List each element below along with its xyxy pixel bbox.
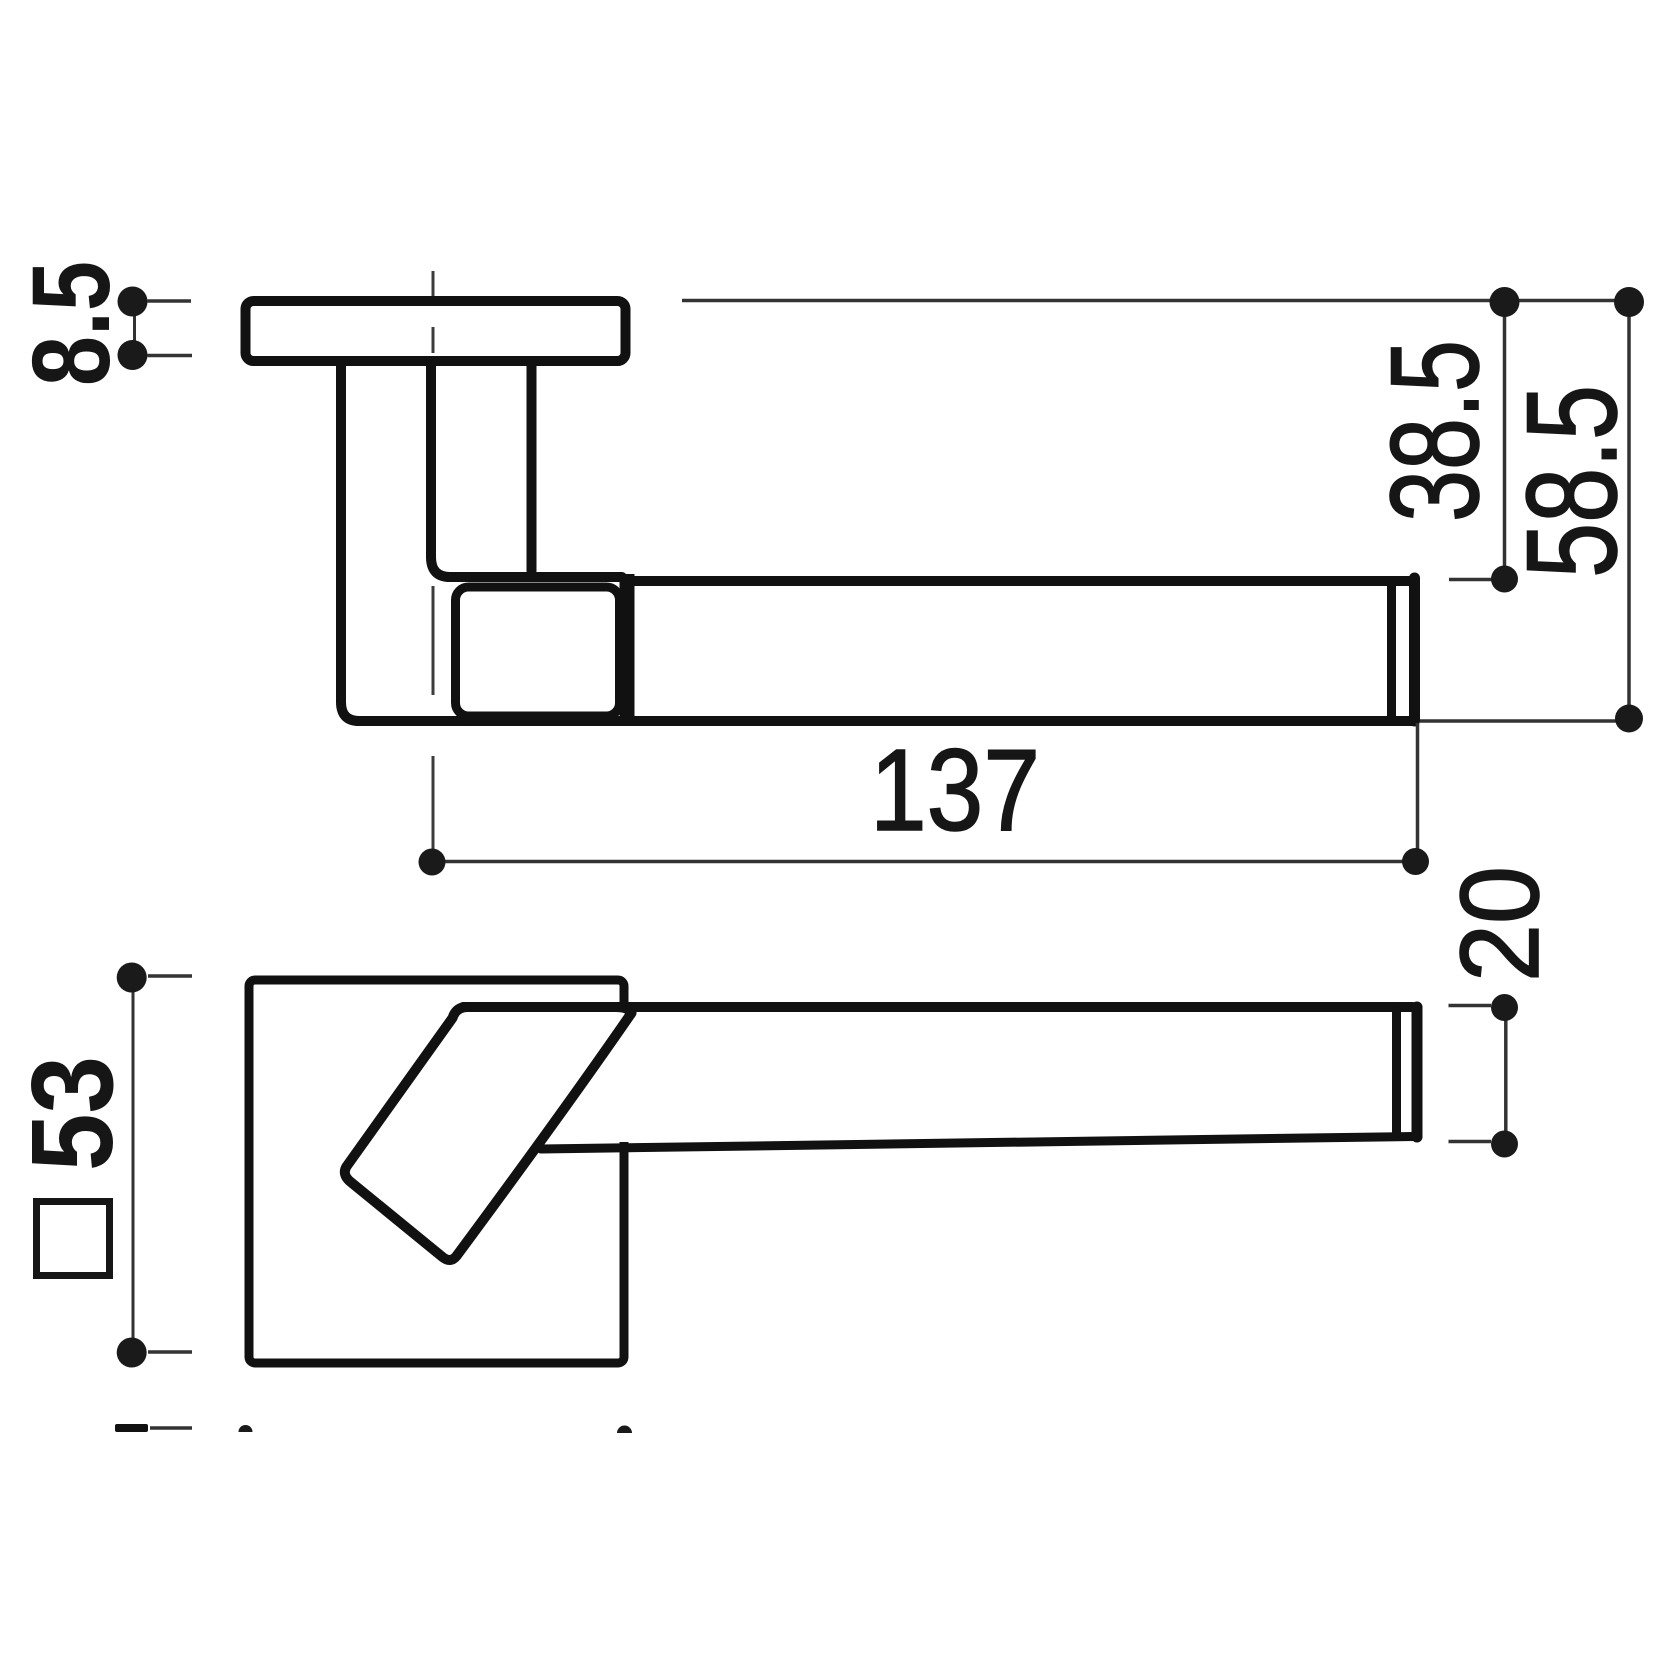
dimension 137 right extension <box>1416 723 1420 861</box>
dimension 137 left dot <box>419 849 446 876</box>
svg-text:58.5: 58.5 <box>1501 385 1644 578</box>
grip top edge right portion (side view) <box>632 576 1410 586</box>
dimension 20 upper dot <box>1491 994 1518 1021</box>
dimension 20 upper tick <box>1449 1004 1492 1008</box>
dimension 8.5 connector <box>133 302 136 355</box>
dimension 137 line <box>432 860 1416 864</box>
lever neck rear line (side view) <box>527 366 537 571</box>
dimension 58.5 upper dot <box>1614 287 1644 317</box>
grip bar fill mask (front view) <box>456 1002 1423 1142</box>
dimension 58.5 bottom tick <box>1420 719 1629 723</box>
dimension 53 upper tick <box>148 974 192 978</box>
lever neck front line with bend (side view) <box>431 366 622 577</box>
dimension 8.5 upper tick <box>148 299 192 303</box>
bottom cropped mark left half dot <box>239 1425 253 1432</box>
svg-text:8.5: 8.5 <box>10 261 133 386</box>
svg-text:137: 137 <box>870 725 1040 855</box>
svg-text:20: 20 <box>1438 866 1562 982</box>
dimension 8.5 lower dot <box>118 340 148 370</box>
dimension 137 right dot <box>1402 848 1429 875</box>
lever outer left edge and bottom edge (side view) <box>341 366 1414 721</box>
dimension 20 connector <box>1504 1008 1508 1144</box>
lever neck angled boss (front view) <box>345 1007 632 1260</box>
dimension 20 lower dot <box>1491 1131 1518 1158</box>
square symbol for 53 <box>37 1202 110 1276</box>
dimension 53 upper dot <box>117 963 147 993</box>
dimension 38.5 upper dot <box>1490 287 1520 317</box>
dimension 38.5 lower dot <box>1491 566 1518 593</box>
rosette plate (side view) <box>246 301 626 361</box>
dimension 53 lower tick <box>148 1350 192 1354</box>
dimension 58.5 extension line <box>1627 302 1631 718</box>
dimension 20 lower tick <box>1449 1140 1492 1144</box>
grip top edge (front view) <box>463 1002 1413 1012</box>
dimension 53 connector <box>132 978 135 1352</box>
dimension 8.5 lower tick <box>148 354 193 358</box>
bottom cropped mark right half dot <box>617 1426 632 1433</box>
grip end cap inner line (front view) <box>1392 1011 1401 1133</box>
top leader line to right dimensions <box>682 299 1629 303</box>
square rose plate (front view) <box>249 980 624 1363</box>
svg-text:38.5: 38.5 <box>1366 340 1505 522</box>
dimension 53 lower dot <box>117 1338 147 1368</box>
bottom cropped mark thin line <box>150 1426 192 1430</box>
grip bottom edge (front view) <box>541 1137 1413 1150</box>
svg-text:53: 53 <box>7 1056 137 1171</box>
dimension 8.5 upper dot <box>118 287 148 317</box>
dimension 38.5 tick <box>1449 578 1504 582</box>
grip outer right end (front view) <box>1412 1007 1423 1137</box>
grip outer right end (side view) <box>1409 578 1420 721</box>
dimension 38.5 extension line <box>1503 302 1507 579</box>
centerline (side view vertical axis) <box>432 271 435 853</box>
dimension 58.5 lower dot <box>1615 705 1643 733</box>
grip sleeve rounded rectangle (side view) <box>456 587 620 716</box>
grip divider bar (side view) <box>620 574 635 721</box>
grip end cap inner line (side view) <box>1387 582 1396 718</box>
bottom cropped mark thick bar <box>115 1424 148 1432</box>
